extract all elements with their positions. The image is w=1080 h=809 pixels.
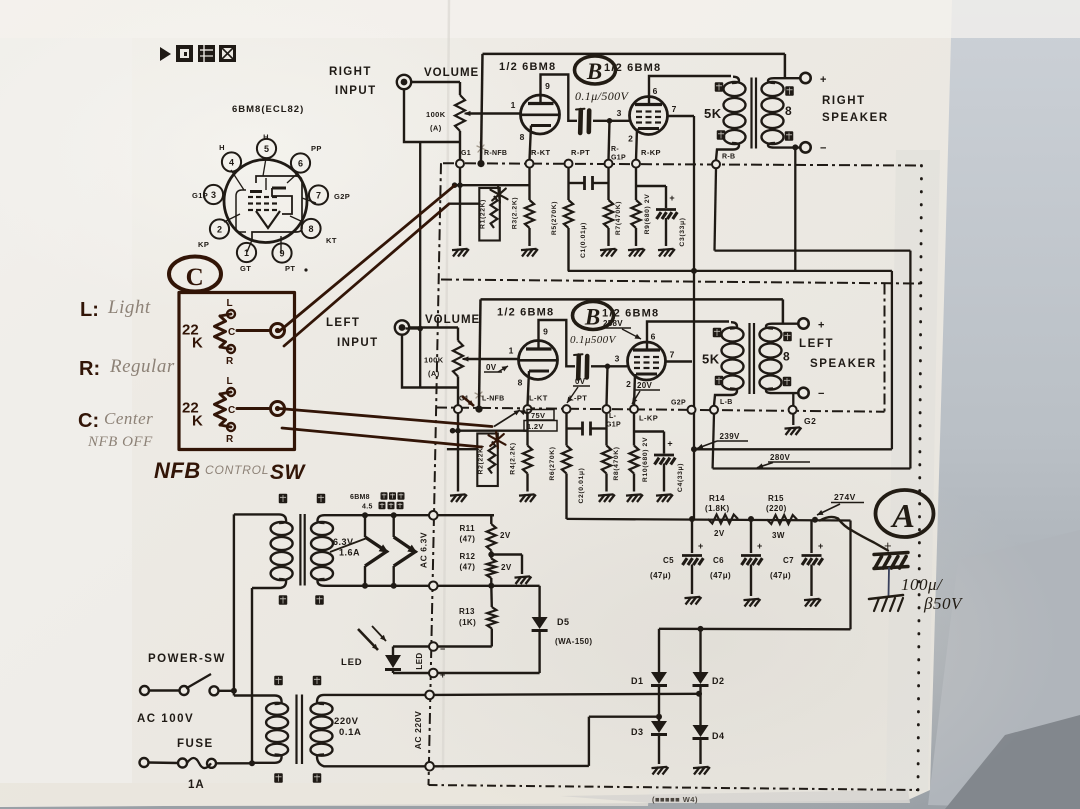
connector node AC220V top: [425, 691, 434, 700]
label L SPEAKER: [799, 338, 877, 370]
svg-text:INPUT: INPUT: [337, 337, 379, 349]
label VOLUME right: [424, 67, 479, 79]
svg-text:1A: 1A: [188, 779, 205, 791]
resistor R3(2.2K) cathode: [512, 168, 535, 246]
wire pentode cathode to node L-KP: [634, 374, 635, 406]
svg-text:5K: 5K: [704, 106, 722, 121]
svg-text:75V: 75V: [531, 411, 545, 420]
svg-text:C: C: [228, 405, 236, 416]
wire node column to ground L: [457, 413, 459, 491]
svg-text:C6: C6: [713, 556, 724, 565]
svg-text:8: 8: [308, 224, 313, 234]
svg-text:D5: D5: [557, 617, 570, 627]
svg-text:R-NFB: R-NFB: [484, 150, 507, 157]
svg-text:100μ/: 100μ/: [901, 575, 944, 594]
speaker + terminal L: [798, 318, 824, 331]
wire NFB lower feed R: [449, 202, 479, 204]
node R-G1P: [605, 160, 613, 168]
header icon: circuit-diagram title mark: [160, 45, 236, 62]
wire jack to volume pot L: [409, 328, 458, 341]
svg-text:L-KP: L-KP: [639, 414, 658, 423]
junction dots chain: [689, 516, 818, 523]
ground under C5: [685, 597, 702, 605]
label AC 6.3V rotated: [419, 532, 429, 568]
svg-text:VOLUME: VOLUME: [425, 314, 480, 326]
svg-text:4: 4: [229, 157, 234, 167]
svg-text:R2(22K): R2(22K): [478, 445, 485, 475]
svg-text:Light: Light: [107, 297, 151, 318]
svg-text:(A): (A): [428, 369, 440, 378]
svg-text:B: B: [586, 59, 603, 84]
wire grid column L: [479, 299, 481, 406]
svg-text:2V: 2V: [500, 531, 511, 540]
label R SPEAKER: [822, 95, 889, 124]
wire triode cathode to node L-KT: [528, 371, 530, 406]
connector node AC6.3V bottom: [429, 582, 438, 591]
ground R11/R12 divider: [515, 576, 532, 584]
handwriting L: Light: [80, 297, 151, 321]
svg-text:(47μ): (47μ): [770, 571, 791, 580]
svg-text:POWER-SW: POWER-SW: [148, 653, 226, 665]
svg-text:+: +: [698, 541, 704, 551]
label 239V: [697, 432, 748, 449]
R input jack: [397, 75, 411, 89]
NFB tap from secondary R: [784, 54, 787, 78]
dash-dot border bottom: [429, 785, 920, 790]
volume pot 100K(A) L: [424, 341, 476, 379]
svg-text:100K: 100K: [426, 110, 446, 119]
wire L-B column down: [713, 414, 714, 469]
node row labels R: [461, 146, 661, 162]
svg-text:L-B: L-B: [720, 399, 733, 406]
capacitor C5(47u): [650, 519, 704, 594]
wire grid column R: [481, 54, 483, 161]
svg-text:RIGHT: RIGHT: [329, 66, 372, 78]
wire primary top column x234: [234, 514, 272, 695]
svg-text:+: +: [667, 439, 672, 449]
resistor R11(47): [460, 515, 511, 550]
svg-text:R1(22K): R1(22K): [480, 199, 487, 229]
svg-text:PT: PT: [285, 264, 295, 273]
ground under input column R: [452, 249, 469, 257]
svg-text:3: 3: [617, 108, 622, 118]
pencil scribble near R-NFB: [477, 142, 486, 153]
svg-text:K: K: [192, 335, 203, 352]
svg-text:B: B: [584, 305, 601, 330]
svg-text:R13: R13: [459, 607, 475, 616]
switch output node: [271, 402, 285, 416]
hand circled C: [169, 257, 221, 292]
dash-dot branch x884 between rows: [884, 284, 886, 412]
svg-text:3: 3: [211, 190, 216, 200]
svg-text:G2: G2: [804, 416, 816, 426]
svg-text:AC 6.3V: AC 6.3V: [419, 532, 429, 568]
ground under cathode resistor R: [521, 249, 538, 257]
svg-text:1/2 6BM8: 1/2 6BM8: [499, 61, 556, 73]
svg-text:+: +: [440, 670, 446, 680]
svg-text:R4(2.2K): R4(2.2K): [510, 442, 517, 474]
hand X mark over R1: [491, 186, 508, 202]
label 0V at left grid: [484, 363, 508, 372]
switch wiper wire: [237, 329, 269, 332]
output transformer 5K:8 L: [702, 322, 798, 405]
ground G2: [785, 427, 802, 435]
resistor R7(470K) grid leak: [604, 168, 622, 246]
speaker - terminal R: [800, 142, 826, 154]
dash-dot mid row / left-channel upper border: [441, 280, 921, 284]
node R-pot: [456, 160, 464, 168]
svg-text:−: −: [818, 388, 824, 400]
svg-text:R8(470K): R8(470K): [613, 446, 620, 480]
wire triode plate to coupling cap R: [541, 75, 578, 121]
svg-text:SW: SW: [270, 461, 307, 484]
svg-text:R-B: R-B: [722, 154, 735, 161]
LED emission arrows: [358, 626, 386, 650]
node L-KP: [630, 405, 638, 413]
pentode 1/2 6BM8 R: [617, 86, 677, 144]
handwriting NFB CONTROL SW: [154, 458, 307, 484]
svg-text:1.6A: 1.6A: [339, 548, 360, 558]
svg-text:L-PT: L-PT: [569, 394, 587, 403]
svg-text:(1K): (1K): [459, 618, 476, 627]
pentode 1/2 6BM8 L: [615, 332, 675, 390]
svg-text:8: 8: [520, 132, 525, 142]
resistor R15(220): [766, 494, 797, 540]
svg-text:R7(470K): R7(470K): [615, 201, 622, 235]
svg-text:R3(2.2K): R3(2.2K): [512, 197, 519, 229]
svg-text:AC 220V: AC 220V: [413, 711, 423, 750]
bridge rail top y628: [659, 626, 851, 632]
svg-text:C4(33μ): C4(33μ): [677, 463, 684, 492]
NFB switch box: [179, 293, 295, 450]
wire jack ground side R: [404, 89, 460, 142]
svg-text:(1.8K): (1.8K): [705, 504, 730, 513]
diode D3: [631, 717, 667, 764]
svg-text:A: A: [890, 498, 915, 535]
wire left jack to shared column: [406, 142, 424, 388]
svg-text:1/2 6BM8: 1/2 6BM8: [497, 307, 554, 319]
node G2 left: [789, 406, 817, 426]
diode D2: [693, 629, 725, 725]
svg-text:2: 2: [217, 224, 222, 234]
resistor R10(680) cathode 2V: [629, 413, 649, 491]
tube socket diagram 6BM8(ECL82): [192, 104, 350, 273]
hand X mark over R2: [489, 432, 506, 448]
heater arrow chevron 1: [362, 512, 389, 589]
svg-text:L-: L-: [609, 413, 617, 420]
ground under input column L: [450, 494, 467, 502]
svg-text:(47): (47): [460, 535, 476, 544]
switch contact R: [226, 345, 235, 367]
node G1 R (junction): [477, 160, 484, 167]
svg-text:(■■■■■ W4): (■■■■■ W4): [652, 795, 698, 804]
volume pot 100K(A) R: [426, 95, 478, 133]
svg-text:6: 6: [298, 158, 303, 168]
output transformer 5K:8 R: [704, 77, 800, 160]
svg-text:+: +: [818, 320, 824, 332]
resistor R14(1.8K): [705, 494, 738, 538]
ground under C7: [804, 599, 821, 607]
svg-text:H: H: [219, 143, 225, 152]
svg-text:R15: R15: [768, 494, 784, 503]
label 22K hand: [182, 322, 203, 352]
svg-text:L-NFB: L-NFB: [482, 396, 505, 403]
wire 280V row y468: [713, 467, 911, 469]
wire pentode screen pin7 column L: [665, 360, 692, 362]
svg-text:274V: 274V: [834, 492, 856, 502]
dotted border right side: [918, 166, 922, 791]
wire pentode plate to OPT primary L: [647, 322, 729, 351]
ground under bypass cap R: [658, 249, 675, 257]
svg-text:R-KT: R-KT: [531, 148, 551, 157]
hand diagonal wire switch to right channel (2): [284, 204, 449, 346]
wire coupling cap to pentode grid pin3 L: [591, 364, 627, 406]
wire B+ chain row y519: [567, 519, 851, 521]
speaker + terminal R: [800, 73, 826, 86]
hand circled A: [876, 490, 934, 537]
hand capacitor 100u/350V: [874, 538, 908, 596]
wire NFB feed horizontal R: [452, 182, 530, 188]
ground under grid leak R: [600, 249, 617, 257]
wire fuse to transformer column: [216, 760, 255, 766]
svg-text:C3(33μ): C3(33μ): [679, 217, 686, 246]
wire triode plate to coupling cap L: [539, 320, 576, 366]
node R-KP: [632, 160, 640, 168]
label RIGHT INPUT: [329, 66, 377, 97]
svg-text:G2P: G2P: [671, 400, 686, 407]
svg-text:D1: D1: [631, 676, 644, 686]
svg-text:R12: R12: [460, 552, 476, 561]
svg-text:6: 6: [653, 86, 658, 96]
wire chain to bridge x850: [849, 521, 851, 630]
triode 1/2 6BM8 L: [509, 327, 558, 388]
wire R11/R12 junction to ground: [488, 552, 522, 575]
NFB tap from secondary L: [782, 299, 785, 323]
svg-text:6: 6: [651, 332, 656, 342]
wire right OPT common down x892: [891, 271, 893, 449]
label 220V 0.1A: [334, 716, 361, 738]
svg-text:9: 9: [279, 248, 284, 258]
svg-text:R-PT: R-PT: [571, 148, 590, 157]
label 22K hand: [182, 400, 203, 430]
resistor R1(22K) NFB in box: [479, 188, 500, 241]
svg-text:+: +: [669, 193, 674, 203]
svg-text:(WA-150): (WA-150): [555, 637, 592, 646]
NFB top rail L: [481, 298, 783, 301]
handwriting 0.1u/500V R: [575, 89, 630, 103]
svg-text:LED: LED: [341, 657, 362, 668]
caption below border: [652, 795, 698, 804]
label 1A: [188, 779, 205, 791]
svg-text:2V: 2V: [714, 529, 725, 538]
connector node AC220V bottom: [425, 762, 434, 771]
wire pot bottom to node L: [457, 377, 459, 406]
resistor R12(47): [460, 551, 512, 589]
power switch: [140, 674, 219, 695]
dash-dot border left connector column: [429, 163, 442, 785]
ground under cathode R R: [628, 249, 645, 257]
diode D4: [693, 725, 725, 764]
printed NFB arrow into L-KT: [494, 410, 520, 427]
capacitor C2(0.01u) printed coupling: [567, 422, 607, 504]
label 6.3V 1.6A: [330, 537, 367, 558]
label FUSE: [177, 738, 214, 750]
svg-text:R:: R:: [79, 358, 100, 380]
svg-text:R-: R-: [611, 146, 619, 153]
svg-text:8: 8: [785, 104, 792, 118]
svg-text:0V: 0V: [575, 377, 586, 386]
resistor R5(270K) plate load: [551, 168, 573, 271]
svg-text:7: 7: [316, 190, 321, 200]
ground under cathode R L: [626, 494, 643, 502]
svg-text:R-KP: R-KP: [641, 148, 661, 157]
svg-text:NFB: NFB: [154, 458, 201, 483]
svg-text:8: 8: [518, 378, 523, 388]
svg-text:220V: 220V: [334, 716, 359, 727]
svg-text:G1P: G1P: [611, 155, 626, 162]
svg-text:K: K: [192, 413, 203, 430]
svg-text:258V: 258V: [603, 319, 623, 328]
svg-text:SPEAKER: SPEAKER: [822, 112, 889, 124]
svg-text:R: R: [226, 434, 234, 445]
label AC 220V rotated: [413, 711, 423, 750]
connector node AC6.3V top: [429, 511, 438, 520]
label 0V at L-PT: [567, 377, 590, 403]
svg-text:G2P: G2P: [334, 192, 350, 201]
wire coupling cap to pentode grid pin3 R: [593, 118, 629, 160]
label 1/2 6BM8 (x2) R: [499, 61, 661, 74]
node L-G1P: [603, 405, 611, 413]
label VOLUME left: [425, 314, 480, 326]
svg-text:LED: LED: [415, 652, 424, 669]
svg-text:D3: D3: [631, 727, 644, 737]
svg-text:Regular: Regular: [109, 356, 175, 377]
wire 250 rail down x910: [909, 251, 911, 469]
wire pot bottom to node R: [459, 131, 461, 160]
svg-text:9: 9: [545, 81, 550, 91]
svg-text:G1P: G1P: [606, 422, 621, 429]
hand arrow at L-NFB node: [462, 396, 474, 406]
wire pentode cathode to node R-KP: [636, 129, 637, 161]
left G2P node on screen column: [671, 400, 696, 414]
svg-text:6.3V: 6.3V: [333, 537, 354, 547]
svg-text:C: C: [186, 264, 205, 291]
resistor 22K hand-drawn: [215, 314, 232, 349]
svg-text:2: 2: [628, 134, 633, 144]
speaker - terminal L: [798, 388, 824, 400]
svg-text:5: 5: [264, 144, 269, 154]
svg-text:2V: 2V: [501, 563, 512, 572]
resistor 22K hand-drawn: [215, 392, 232, 427]
resistor R13(1K): [459, 586, 496, 647]
svg-text:G1: G1: [461, 150, 471, 157]
svg-text:R10(680) 2V: R10(680) 2V: [642, 437, 649, 482]
svg-text:−: −: [440, 644, 446, 654]
svg-text:3: 3: [615, 354, 620, 364]
svg-text:(47): (47): [460, 563, 476, 572]
ground under grid leak L: [598, 494, 615, 502]
svg-text:2: 2: [626, 379, 631, 389]
svg-text:1: 1: [509, 346, 514, 356]
svg-text:239V: 239V: [720, 432, 741, 441]
svg-text:0.1μ500V: 0.1μ500V: [570, 334, 617, 346]
node R-KT: [526, 160, 534, 168]
handwriting 100u/350V: [901, 575, 964, 613]
svg-text:3W: 3W: [772, 531, 785, 540]
svg-text:G1P: G1P: [192, 191, 208, 200]
svg-text:LEFT: LEFT: [799, 338, 834, 350]
wire pentode plate to OPT primary R: [649, 76, 731, 105]
resistor R9(680) cathode 2V: [631, 168, 651, 246]
hand diagonal wire switch to right channel (1): [279, 185, 455, 331]
svg-text:6BM8(ECL82): 6BM8(ECL82): [232, 104, 304, 115]
hand diagonal wire switch to left channel (1): [279, 409, 492, 427]
NFB top rail R: [483, 53, 785, 56]
ground under D4: [693, 767, 710, 775]
label heater pins note: [350, 492, 405, 510]
resistor R8(470K) grid leak: [602, 413, 620, 491]
svg-text:LEFT: LEFT: [326, 317, 360, 329]
svg-text:+: +: [820, 74, 826, 86]
svg-text:+: +: [757, 541, 763, 551]
wire R13 to LED minus node: [433, 645, 492, 647]
switch wiper wire: [237, 407, 269, 410]
svg-text:4.5: 4.5: [362, 504, 373, 511]
svg-text:0V: 0V: [486, 363, 497, 372]
svg-text:(A): (A): [430, 124, 442, 133]
handwriting 0.1u/500V L: [570, 334, 617, 346]
svg-text:C5: C5: [663, 556, 674, 565]
svg-text:5K: 5K: [702, 352, 720, 367]
switch contact L: [227, 298, 235, 318]
svg-text:VOLUME: VOLUME: [424, 67, 479, 79]
svg-text:+: +: [818, 541, 824, 551]
svg-text:D2: D2: [712, 676, 725, 686]
hand ground under 100u cap: [869, 595, 903, 611]
label 258V at left pentode: [601, 319, 641, 339]
resistor R4(2.2K) cathode: [510, 413, 533, 491]
label LED: [341, 657, 362, 668]
wire switch to transformer column: [219, 688, 237, 694]
label 274V: [817, 492, 864, 515]
switch output node: [271, 324, 285, 338]
svg-text:(220): (220): [766, 504, 787, 513]
capacitor 0.1u/500V (hand-drawn) R: [576, 109, 589, 133]
fuse: [140, 758, 217, 768]
node R-PT: [565, 160, 573, 168]
diode D5 (WA-150): [438, 586, 593, 673]
node G1 L (junction): [475, 406, 482, 413]
label LEFT INPUT: [326, 317, 379, 349]
ground under cathode resistor L: [519, 494, 536, 502]
label 20V at L-KP: [632, 381, 660, 404]
svg-text:(47μ): (47μ): [650, 571, 671, 580]
hand circled B L: [573, 302, 614, 330]
power transformer heater winding: [234, 494, 540, 605]
svg-text:(47μ): (47μ): [710, 571, 731, 580]
connector node LED minus: [429, 642, 446, 654]
svg-text:1.2V: 1.2V: [527, 422, 544, 431]
wire pot wiper to triode grid pin1 R: [466, 112, 521, 114]
label C wiper: [228, 405, 236, 416]
wire jack ground side L: [402, 335, 458, 388]
capacitor 0.1u/500V (hand-drawn) L: [574, 354, 587, 378]
dash-dot border top / right-channel node row: [443, 163, 922, 165]
hand circled B R: [575, 56, 616, 84]
svg-text:1: 1: [511, 100, 516, 110]
svg-text:+: +: [884, 538, 892, 553]
svg-text:RIGHT: RIGHT: [822, 95, 866, 107]
